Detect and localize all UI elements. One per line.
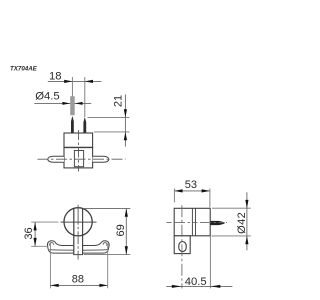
dim line 18 xyxy=(48,80,102,82)
svg-text:88: 88 xyxy=(72,274,84,286)
right wing (wall plate ear) xyxy=(93,156,109,162)
dim line 21 xyxy=(124,94,126,146)
svg-text:Ø4.5: Ø4.5 xyxy=(35,90,60,102)
arrow Ø4.5 right xyxy=(75,102,83,105)
extension line 69 top xyxy=(84,208,131,210)
right knob inner curl xyxy=(103,243,107,246)
screw slot oval xyxy=(179,242,186,252)
side body box xyxy=(174,208,210,236)
arrow 69 bottom xyxy=(125,246,128,254)
extension line Ø42 bottom xyxy=(212,235,251,237)
arrow Ø4.5 left xyxy=(62,102,70,105)
extension line 88 left xyxy=(49,244,51,289)
extension line left pin center xyxy=(71,77,73,99)
arrow 88 left xyxy=(50,284,58,287)
arrow 18 right xyxy=(85,80,93,83)
extension line screw tip level (21 top) xyxy=(88,117,130,119)
arrow 36 bottom xyxy=(34,238,37,246)
arrow 88 right xyxy=(99,284,107,287)
extension line body top level (21 bottom) xyxy=(94,131,130,133)
dim line 88 xyxy=(50,284,107,286)
arrow 53 left xyxy=(174,189,182,192)
flange divider (thick) xyxy=(64,147,93,149)
extension line Ø42 top xyxy=(212,207,251,209)
dim line Ø42 xyxy=(246,192,248,250)
svg-text:40.5: 40.5 xyxy=(185,276,207,288)
inner boss rectangle xyxy=(74,151,83,167)
svg-text:53: 53 xyxy=(185,179,197,191)
hook body top-view lower box xyxy=(64,148,93,168)
extension line 40.5 right (body edge extended) xyxy=(209,236,211,289)
screw right point xyxy=(83,117,86,133)
arrow 53 right xyxy=(202,189,210,192)
extension line 36 bottom xyxy=(31,245,48,247)
arrow 40.5 right xyxy=(211,285,221,288)
arrow 18 left xyxy=(64,80,72,83)
arrow 21 top xyxy=(124,109,127,117)
stem lines through circle xyxy=(73,209,75,255)
arrow 40.5 left xyxy=(172,285,182,288)
arrow 69 top xyxy=(125,209,128,217)
left knob inner curl xyxy=(50,243,54,246)
screw left shaft (grey) xyxy=(70,96,75,115)
horizontal centerline side view xyxy=(167,222,228,224)
flange double line right xyxy=(195,208,197,236)
vertical centerline side view xyxy=(181,205,183,288)
extension line 88 right xyxy=(107,244,109,289)
svg-text:69: 69 xyxy=(115,224,127,236)
arrow Ø42 bottom xyxy=(245,236,248,244)
arrow Ø42 top xyxy=(245,200,248,208)
left wing (wall plate ear) xyxy=(48,156,64,162)
extension line right pin center xyxy=(84,77,86,117)
leader line Ø4.5 xyxy=(34,102,91,104)
arrow 36 top xyxy=(34,222,37,230)
arrow 21 bottom xyxy=(124,132,127,140)
vertical centerline front view xyxy=(77,205,79,260)
dim line 40.5 xyxy=(166,285,232,287)
horizontal centerline front view xyxy=(31,221,58,223)
flange double line left xyxy=(191,208,193,236)
extension line 69 bottom xyxy=(84,254,130,256)
wings bar (double hook) xyxy=(47,241,109,253)
svg-text:TX704AE: TX704AE xyxy=(10,66,38,73)
svg-text:18: 18 xyxy=(49,70,62,82)
wings inner bottom line xyxy=(49,249,107,251)
dim line 53 xyxy=(174,190,210,192)
svg-text:Ø42: Ø42 xyxy=(236,212,248,234)
wall plate lower xyxy=(174,236,190,254)
vertical centerline top view xyxy=(78,130,80,172)
hook body top-view upper box xyxy=(64,133,93,148)
hook stem xyxy=(74,209,83,255)
hook spike (side view) xyxy=(210,221,225,225)
extension line 53 right xyxy=(209,189,211,208)
extension line 53 left xyxy=(173,189,175,203)
hook round cap circle xyxy=(64,208,92,236)
dim line 69 xyxy=(125,209,127,255)
svg-text:21: 21 xyxy=(113,95,125,107)
dim line 36 xyxy=(34,222,36,246)
horizontal centerline top view xyxy=(38,158,126,160)
screw left point xyxy=(71,116,74,133)
svg-text:36: 36 xyxy=(23,227,35,239)
